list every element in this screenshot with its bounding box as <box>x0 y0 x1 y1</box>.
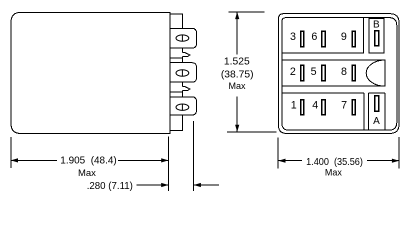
dimension line .280 left segment <box>137 184 169 186</box>
arrowhead .280 left (points right) <box>161 183 168 187</box>
pin slot 6 <box>322 31 325 46</box>
pin tab 1 eyelet <box>176 35 189 41</box>
pin slot 5 <box>322 65 325 80</box>
svg-text:1.905 (48.4): 1.905 (48.4) <box>60 155 116 166</box>
A box top edge <box>369 92 386 94</box>
extension line top (1.525) <box>229 11 265 13</box>
top region right divider <box>362 18 364 54</box>
pin tab 3 top ledge <box>170 96 183 98</box>
socket outer outline <box>279 14 400 134</box>
B box <box>369 18 384 53</box>
pin tab 2 bottom ledge <box>170 81 183 83</box>
blade pin 1 <box>182 53 190 57</box>
pin tab 2 top ledge <box>170 62 183 64</box>
A box right edge <box>384 93 386 130</box>
middle row box <box>282 60 385 86</box>
svg-text:1.400 (35.56): 1.400 (35.56) <box>306 157 363 168</box>
neck below blade2 <box>181 91 183 97</box>
arrowhead 1.400 right <box>392 159 399 163</box>
neck between tab1 and blade1 <box>181 48 183 53</box>
svg-text:1.525: 1.525 <box>224 57 250 68</box>
arrowhead 1.400 left <box>278 159 285 163</box>
pin tab 1 bottom ledge <box>170 47 183 49</box>
svg-text:4: 4 <box>312 100 318 112</box>
svg-text:8: 8 <box>341 66 347 78</box>
bottom row box top edge <box>282 92 364 94</box>
dimension line 1.525 lower segment <box>236 97 238 132</box>
svg-text:Max: Max <box>325 168 343 178</box>
pin tab 2 eyelet <box>176 70 189 76</box>
pin tab 3 eyelet <box>176 104 189 110</box>
extension line body left <box>10 137 12 168</box>
extension line socket right <box>398 137 400 169</box>
socket inner outline <box>282 18 397 131</box>
arrowhead 1.525 up <box>235 12 239 19</box>
svg-text:5: 5 <box>311 66 317 78</box>
svg-text:Max: Max <box>228 81 246 91</box>
bottom mounting step <box>170 115 183 130</box>
extension line socket left <box>277 137 279 168</box>
pin slot 3 <box>301 31 304 46</box>
neck between tab2 and blade2 <box>181 82 183 87</box>
svg-text:B: B <box>373 20 380 31</box>
svg-text:1: 1 <box>291 100 297 112</box>
pin slot 4 <box>322 100 325 115</box>
arrowhead .280 right (points left) <box>194 183 201 187</box>
pin slot 2 <box>301 65 304 80</box>
arrowhead 1.525 down <box>235 125 239 132</box>
svg-text:(38.75): (38.75) <box>221 70 254 81</box>
pin tab 3 <box>182 97 196 115</box>
groove line gap2 <box>170 91 183 93</box>
dimension line 1.905 left segment <box>11 159 57 161</box>
pin slot 1 <box>301 100 304 115</box>
dimension line 1.905 right segment <box>118 159 168 161</box>
svg-text:A: A <box>373 116 380 127</box>
arrowhead 1.905 right <box>161 158 168 162</box>
blade pin 2 <box>182 87 190 91</box>
dimension line .280 right tail <box>194 184 219 186</box>
extension line bottom (1.525) <box>227 131 277 133</box>
A box left edge <box>368 93 370 130</box>
groove line gap1 <box>170 57 183 59</box>
svg-text:6: 6 <box>311 31 317 43</box>
svg-text:2: 2 <box>290 66 296 78</box>
pin slot A <box>375 96 379 111</box>
relay body (side view) <box>11 12 170 133</box>
svg-text:Max: Max <box>78 168 96 178</box>
bottom row box right edge <box>363 93 365 130</box>
pin tab 2 <box>182 63 196 82</box>
dimension line 1.400 left segment <box>278 160 302 162</box>
pin slot 7 <box>352 100 355 115</box>
pin slot 8 <box>352 65 355 80</box>
extension line body right <box>167 137 169 192</box>
svg-text:3: 3 <box>290 31 296 43</box>
arrowhead 1.905 left <box>11 158 18 162</box>
top mounting step <box>170 14 183 29</box>
top region bottom divider <box>282 52 364 54</box>
pin slot B <box>375 31 379 46</box>
pin slot 9 <box>352 31 355 46</box>
dimension line 1.525 upper segment <box>236 12 238 55</box>
svg-text:7: 7 <box>341 100 347 112</box>
neck below blade1 <box>181 57 183 63</box>
svg-text:9: 9 <box>341 31 347 43</box>
extension line pin tips <box>193 121 195 191</box>
svg-text:.280 (7.11): .280 (7.11) <box>87 181 133 192</box>
D keyway notch <box>366 60 385 86</box>
pin tab 1 <box>170 28 197 48</box>
dimension line 1.400 right segment <box>367 160 399 162</box>
